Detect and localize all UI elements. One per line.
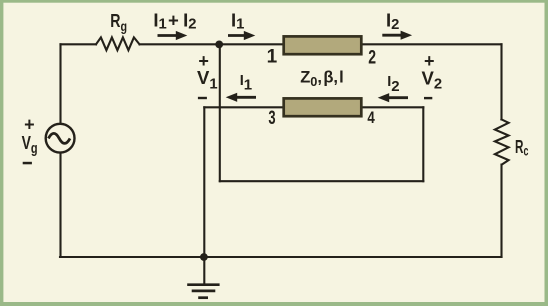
wire pin 3 left [204,106,282,108]
wire top-left vertical (source to top rail) [59,44,61,126]
ground stem [203,257,205,284]
arrow I2 out of pin 2 [382,31,412,40]
source Vg circle [46,124,75,153]
wire top rail to node A [140,43,219,45]
label V2 minus [424,97,432,99]
resistor Rc [495,119,509,164]
arrow I2 into pin 4 (leftward) [378,93,408,102]
wire right rail upper [500,44,502,119]
wire top rail left segment [61,43,97,45]
wire pin 3 branch down to ground node [203,107,205,257]
wire pin 2 to right rail [363,43,502,45]
arrow I1+I2 [158,31,188,40]
arrow I1 into pin 1 [228,31,255,40]
wire bottom rail [60,256,502,258]
transmission line top conductor (pins 1-2) [284,36,362,54]
wire pin 4 to inner loop [363,106,424,108]
label V1 minus [198,97,207,99]
wire inner loop bottom [220,180,423,182]
source Vg sine wave [48,133,70,143]
svg-text:Z0,β,l: Z0,β,l [300,69,344,89]
arrow I1 out of pin 3 (leftward) [226,93,256,102]
svg-text:1: 1 [267,46,278,67]
node A junction dot [215,41,223,49]
wire inner loop right vertical [422,107,424,181]
wire right rail lower [500,165,502,257]
svg-text:2: 2 [368,47,376,68]
label Vg minus [23,162,32,165]
ground node junction dot [200,253,208,261]
wire bottom-left vertical (source to bottom rail) [59,152,61,258]
svg-text:3: 3 [268,108,275,129]
svg-text:4: 4 [367,109,375,127]
transmission line bottom conductor (pins 3-4) [284,98,362,116]
wire node A to pin 1 [219,43,283,45]
resistor Rg [96,37,140,50]
wire node A down (V1 branch) [219,44,221,181]
ground symbol bars [187,285,219,298]
